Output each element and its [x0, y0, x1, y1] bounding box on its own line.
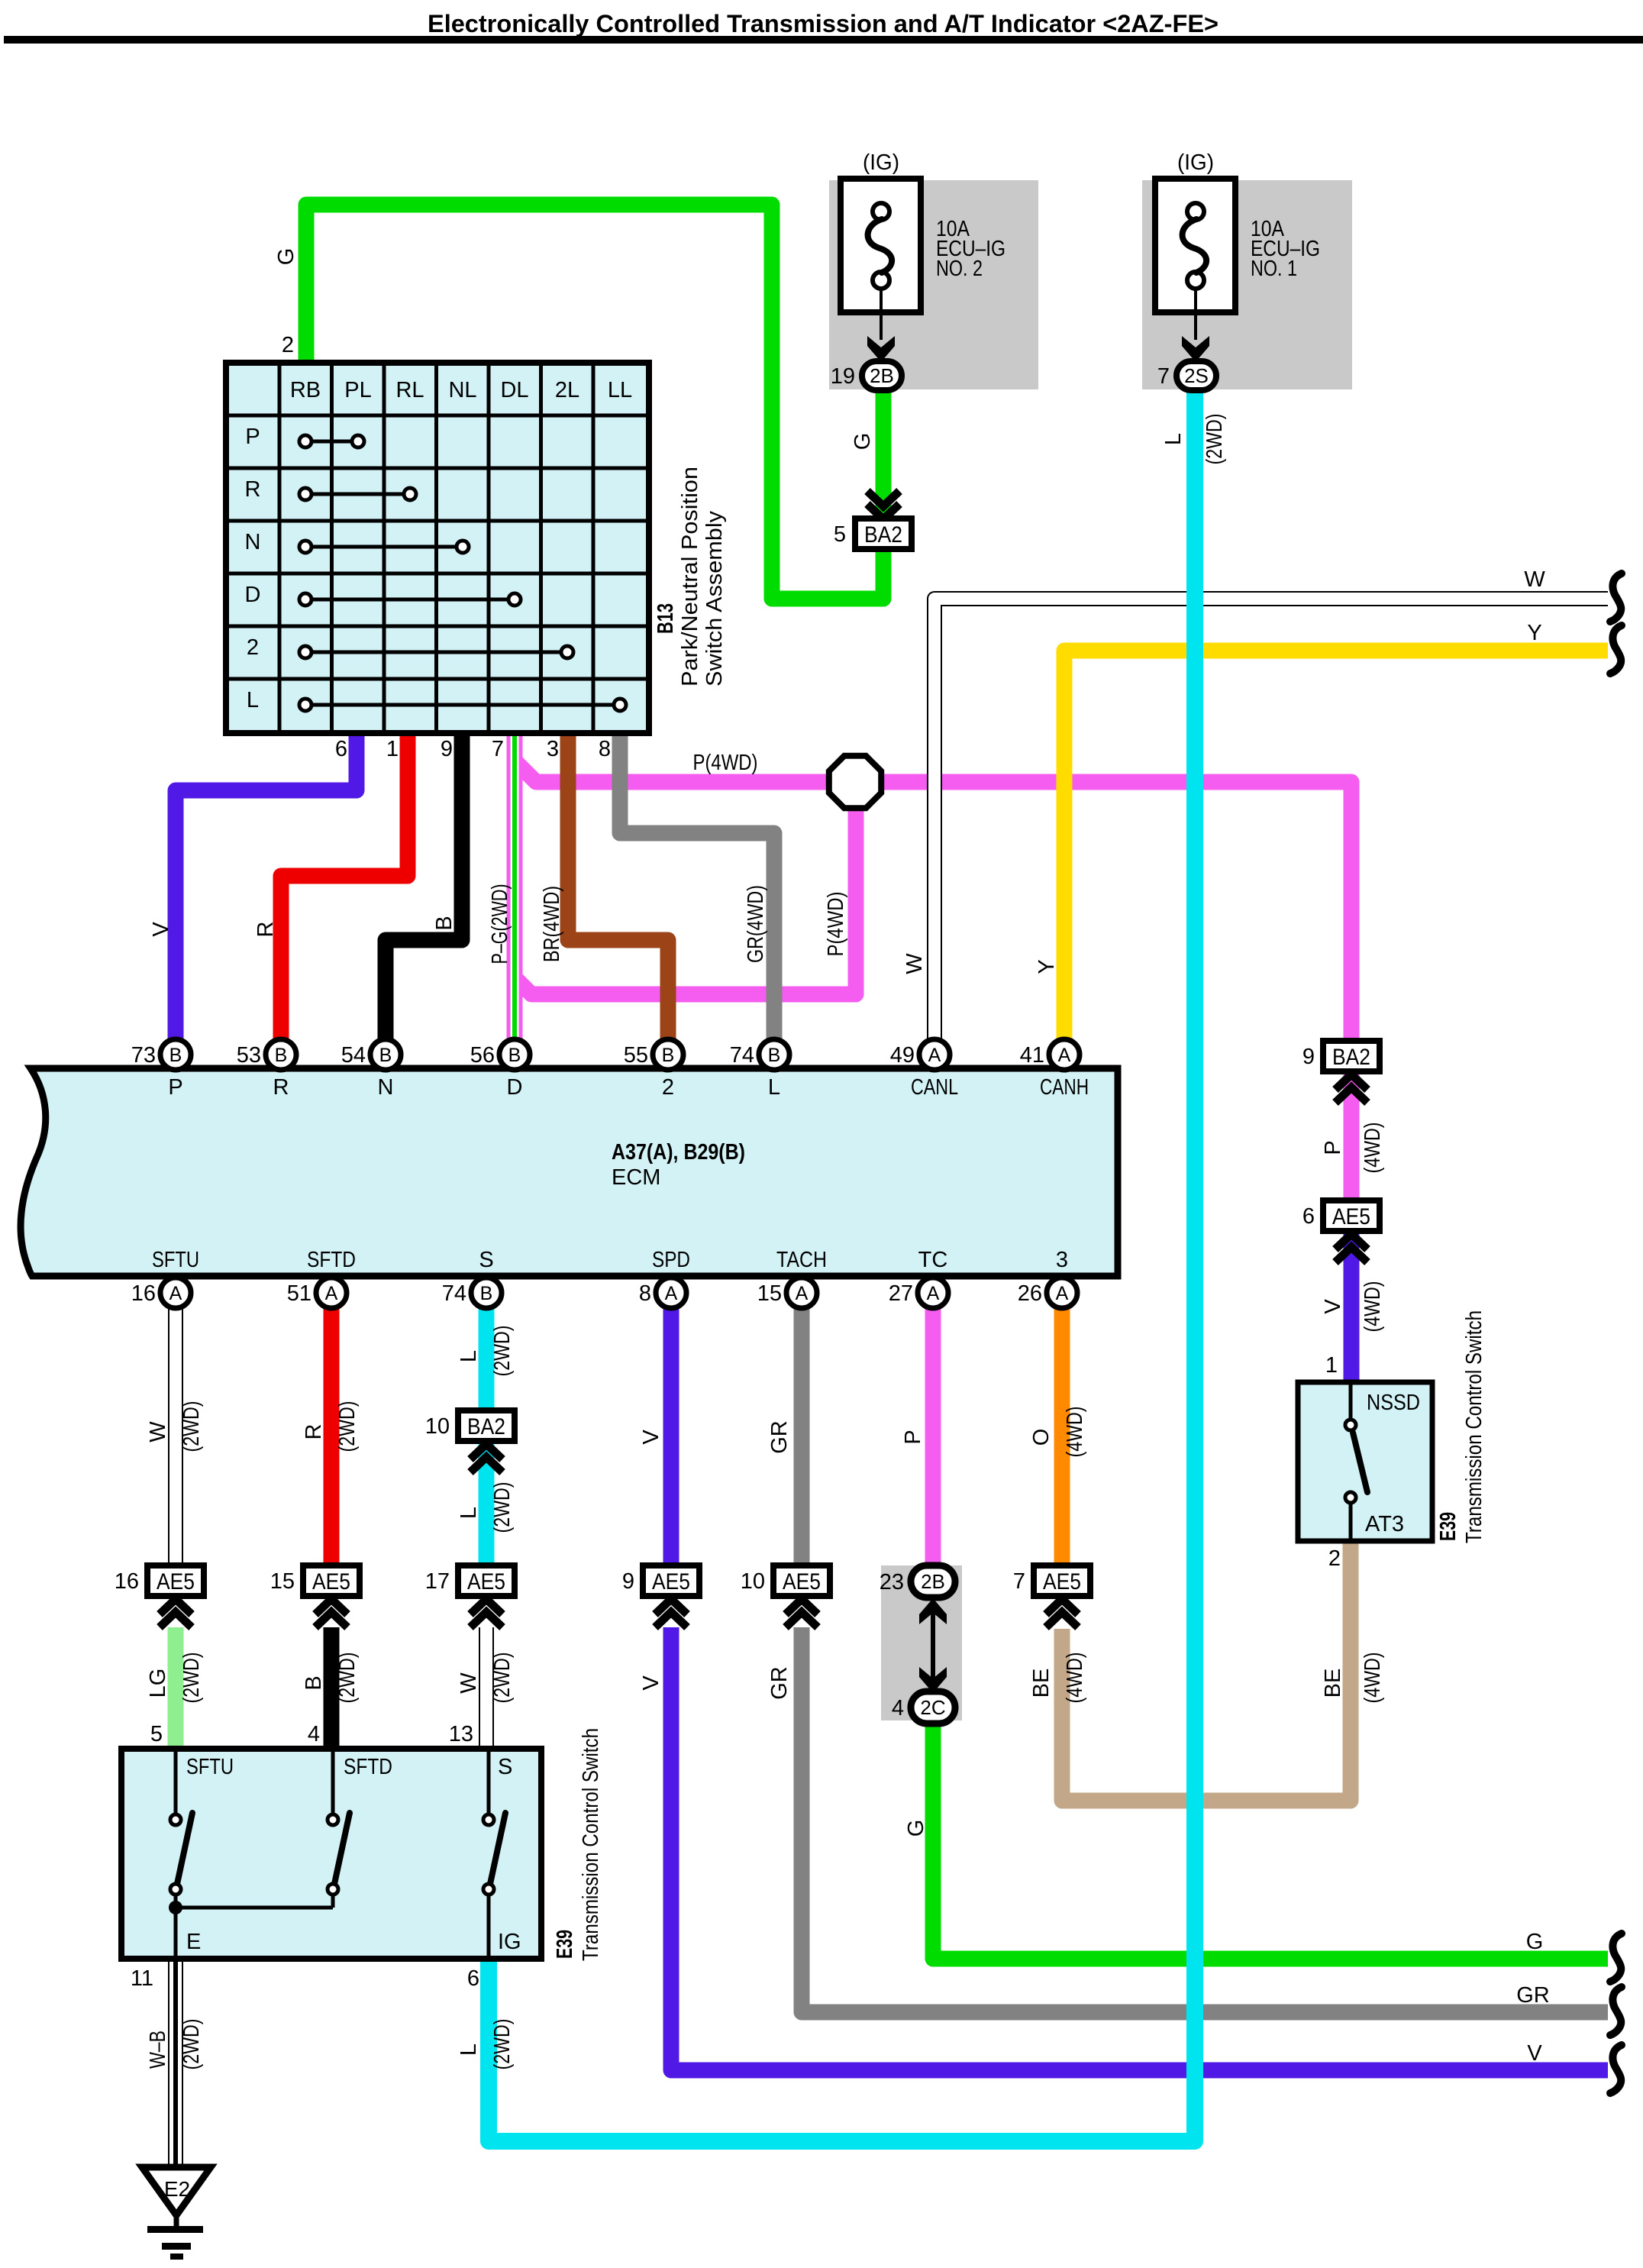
svg-text:53: 53 [237, 1043, 261, 1068]
svg-text:7: 7 [1157, 364, 1170, 389]
svg-text:26: 26 [1018, 1281, 1042, 1306]
ECM top pin 41(A) CANH [1020, 1039, 1089, 1100]
svg-text:(2WD): (2WD) [179, 1401, 204, 1452]
svg-text:1: 1 [386, 737, 399, 761]
svg-text:P: P [245, 425, 260, 449]
svg-text:PL: PL [344, 378, 371, 402]
svg-text:(2WD): (2WD) [490, 1653, 515, 1704]
wire break G at right edge [1610, 1934, 1622, 1982]
wire break V at right edge [1610, 2045, 1622, 2093]
svg-text:BA2: BA2 [467, 1414, 505, 1439]
fuse output arrow to 2S [1182, 288, 1209, 362]
svg-text:CANL: CANL [911, 1075, 958, 1100]
svg-text:W: W [902, 953, 927, 974]
connector 4 2C [892, 1691, 955, 1724]
svg-text:16: 16 [115, 1569, 139, 1594]
B13 designator labels [654, 467, 727, 687]
svg-text:4: 4 [308, 1722, 320, 1746]
svg-text:11: 11 [131, 1966, 153, 1991]
wire Y: ECM pin41 CANH to right edge [1064, 651, 1608, 1042]
svg-text:L: L [768, 1075, 780, 1100]
svg-text:A: A [796, 1283, 809, 1304]
svg-text:AE5: AE5 [1332, 1204, 1370, 1229]
connector 7 2S [1157, 361, 1216, 390]
wire W: ECM pin49 CANL to right edge [934, 599, 1608, 1042]
svg-text:NSSD: NSSD [1367, 1391, 1420, 1415]
svg-text:RB: RB [290, 378, 321, 402]
svg-text:GR(4WD): GR(4WD) [744, 885, 768, 963]
svg-text:V: V [639, 1675, 663, 1691]
svg-text:4: 4 [892, 1696, 904, 1720]
svg-text:P(4WD): P(4WD) [693, 751, 758, 775]
svg-text:A: A [1056, 1283, 1069, 1304]
connector 17 AE5 [425, 1565, 515, 1627]
svg-text:56: 56 [470, 1043, 495, 1068]
svg-text:2S: 2S [1184, 364, 1209, 387]
svg-text:27: 27 [889, 1281, 913, 1306]
right edge wire name labels [1516, 567, 1550, 2066]
wire LG(2WD): 16 AE5 to E39 pin5 [168, 1627, 184, 1752]
svg-text:(2WD): (2WD) [335, 1401, 360, 1452]
svg-text:BR(4WD): BR(4WD) [540, 886, 564, 962]
svg-text:GR: GR [767, 1420, 792, 1454]
connector 10 AE5 [741, 1565, 830, 1627]
svg-text:NO. 1: NO. 1 [1251, 257, 1297, 281]
wire break Y at right edge [1610, 625, 1622, 674]
svg-text:SFTD: SFTD [344, 1755, 392, 1779]
wire O(4WD): ECM pin26 3 to 7 AE5 [1054, 1306, 1070, 1569]
ECM bottom pin 27(A) TC [889, 1248, 948, 1308]
svg-text:74: 74 [730, 1043, 754, 1068]
svg-text:D: D [245, 583, 261, 607]
svg-text:AT3: AT3 [1365, 1512, 1404, 1536]
svg-text:TACH: TACH [776, 1248, 827, 1272]
wire BR(4WD): PNP pin3 to ECM pin55 2 [568, 729, 668, 1042]
svg-text:Y: Y [1527, 621, 1541, 645]
svg-text:19: 19 [831, 364, 855, 389]
ECM bottom pin 15(A) TACH [757, 1248, 827, 1308]
svg-text:2B: 2B [921, 1570, 945, 1593]
svg-text:G: G [274, 248, 299, 266]
svg-text:L: L [1161, 433, 1186, 445]
svg-text:(2WD): (2WD) [490, 1326, 515, 1377]
wire G: fuse 2B pin19 to PNP switch pin 2 [306, 205, 883, 599]
wire W-B(2WD): E39 pin11 to ground E2 [168, 1956, 183, 2170]
wire P: ECM pin27 TC to 23 2B [925, 1306, 941, 1570]
svg-text:7: 7 [492, 737, 504, 761]
svg-text:RL: RL [395, 378, 424, 402]
connector 5 BA2 (green wire) [834, 491, 912, 549]
transmission control switch E39 (NSSD/AT3) [1298, 1310, 1486, 1571]
svg-text:P: P [901, 1430, 925, 1444]
svg-text:(2WD): (2WD) [1202, 414, 1227, 465]
svg-text:L: L [457, 2043, 481, 2056]
svg-text:(4WD): (4WD) [1361, 1653, 1385, 1704]
wire P(4WD) lower branch to octagon junction [513, 806, 856, 994]
svg-text:6: 6 [1302, 1204, 1315, 1229]
wire break GR at right edge [1610, 1987, 1622, 2035]
svg-text:D: D [507, 1075, 523, 1100]
wire B: PNP pin9 to ECM pin54 N [386, 729, 462, 1042]
svg-text:ECM: ECM [612, 1165, 660, 1190]
contact N:RB-NL [299, 541, 469, 553]
svg-text:L: L [457, 1350, 481, 1362]
ECM top pin 73(B) P [131, 1039, 191, 1100]
wire B(2WD): 15 AE5 to E39 pin4 [324, 1627, 340, 1752]
svg-text:41: 41 [1020, 1043, 1044, 1068]
contact R:RB-RL [299, 488, 416, 500]
wire W(2WD): ECM pin16 SFTU to 16 AE5 [168, 1306, 183, 1569]
svg-text:A: A [928, 1045, 941, 1066]
svg-text:AE5: AE5 [1043, 1569, 1081, 1594]
svg-text:51: 51 [287, 1281, 311, 1306]
svg-text:Park/Neutral Position: Park/Neutral Position [678, 467, 702, 687]
svg-text:P: P [168, 1075, 182, 1100]
svg-text:SPD: SPD [652, 1248, 690, 1272]
svg-text:A: A [1058, 1045, 1071, 1066]
ECM bottom pin 8(A) SPD [639, 1248, 690, 1308]
svg-text:A: A [169, 1283, 182, 1304]
svg-text:AE5: AE5 [467, 1569, 505, 1594]
svg-text:B: B [768, 1045, 781, 1066]
svg-text:6: 6 [467, 1966, 479, 1991]
svg-text:55: 55 [624, 1043, 648, 1068]
svg-text:2: 2 [282, 333, 294, 357]
ECM bottom pin 16(A) SFTU [131, 1248, 199, 1308]
ECM top pin 56(B) D [470, 1039, 530, 1100]
svg-text:V: V [149, 922, 173, 937]
svg-text:G: G [851, 433, 875, 451]
svg-text:(2WD): (2WD) [179, 1653, 204, 1704]
wire L(2WD): fuse 2S pin7 via E39 pin6 IG (long cyan run) [489, 386, 1195, 2141]
wire W(2WD): 17 AE5 to E39 pin13 [479, 1627, 494, 1752]
wire L(2WD): ECM pin74 S to 10 BA2 [479, 1306, 495, 1414]
svg-text:P–G(2WD): P–G(2WD) [488, 884, 512, 964]
ECM top pin 74(B) L [730, 1039, 789, 1100]
svg-text:2B: 2B [870, 364, 894, 387]
svg-text:B: B [432, 916, 457, 930]
wire V: 9 AE5 to right edge [671, 1627, 1608, 2070]
svg-text:(4WD): (4WD) [1361, 1281, 1385, 1333]
svg-text:B: B [169, 1045, 182, 1066]
svg-text:N: N [245, 530, 261, 554]
svg-text:R: R [245, 477, 261, 502]
ECM top pin 54(B) N [341, 1039, 401, 1100]
fuse 10A ECU-IG NO. 1 [1155, 150, 1320, 312]
svg-text:A37(A), B29(B): A37(A), B29(B) [612, 1140, 745, 1165]
svg-text:W: W [146, 1421, 170, 1443]
ECM top pin 55(B) 2 [624, 1039, 683, 1100]
svg-text:B: B [662, 1045, 675, 1066]
svg-text:NL: NL [448, 378, 476, 402]
svg-text:10: 10 [425, 1414, 450, 1439]
ECM A37(A) B29(B) [21, 1068, 1118, 1276]
svg-text:54: 54 [341, 1043, 366, 1068]
ECM bottom pin 51(A) SFTD [287, 1248, 356, 1308]
PNP bottom pin labels 6 1 9 7 3 8 [335, 737, 611, 761]
connector 10 BA2 (cyan wire) [425, 1410, 515, 1472]
park/neutral position switch assembly B13 [226, 363, 649, 733]
svg-text:3: 3 [1056, 1248, 1068, 1272]
wire G: 4 2C to right edge [933, 1720, 1608, 1959]
wire V(4WD): 6 AE5 to NSSD pin1 [1344, 1232, 1360, 1386]
svg-text:W: W [1524, 567, 1545, 592]
svg-text:NO. 2: NO. 2 [936, 257, 983, 281]
svg-text:Electronically Controlled Tran: Electronically Controlled Transmission a… [428, 10, 1219, 37]
svg-text:13: 13 [449, 1722, 473, 1746]
svg-text:(2WD): (2WD) [490, 1482, 515, 1533]
svg-text:O: O [1029, 1429, 1054, 1446]
transmission control switch E39 (SFTU/SFTD/S) [121, 1728, 603, 1961]
svg-text:AE5: AE5 [652, 1569, 690, 1594]
contact D:RB-DL [299, 593, 521, 606]
connector 19 2B [831, 361, 902, 390]
svg-text:P(4WD): P(4WD) [824, 892, 848, 957]
svg-text:SFTU: SFTU [186, 1755, 234, 1779]
svg-text:E2: E2 [164, 2177, 190, 2201]
svg-text:73: 73 [131, 1043, 156, 1068]
svg-text:V: V [1321, 1299, 1345, 1314]
svg-text:6: 6 [335, 737, 347, 761]
wire P(4WD) upper: branch from pin7 through octagon to 9 BA2 and NSSD column [513, 759, 1351, 1046]
svg-text:(2WD): (2WD) [490, 2019, 515, 2070]
connector 16 AE5 [115, 1565, 204, 1627]
connector 23 2B [880, 1565, 955, 1598]
wire break W at right edge [1610, 573, 1622, 622]
svg-text:E39: E39 [553, 1930, 577, 1959]
svg-text:W–B: W–B [146, 2031, 170, 2069]
svg-text:IG: IG [498, 1930, 521, 1954]
svg-text:LL: LL [608, 378, 632, 402]
svg-text:V: V [1527, 2041, 1542, 2066]
svg-text:Transmission Control Switch: Transmission Control Switch [1462, 1310, 1486, 1543]
svg-text:8: 8 [599, 737, 611, 761]
svg-text:17: 17 [425, 1569, 450, 1594]
svg-text:2: 2 [247, 635, 259, 660]
svg-text:S: S [479, 1248, 493, 1272]
svg-text:A: A [325, 1283, 338, 1304]
header rule [4, 36, 1643, 44]
svg-text:BE: BE [1321, 1669, 1345, 1698]
svg-text:R: R [273, 1075, 289, 1100]
E39 pin labels 5 4 13 11 6 [131, 1722, 479, 1991]
svg-text:A: A [665, 1283, 678, 1304]
svg-text:15: 15 [270, 1569, 295, 1594]
svg-text:5: 5 [834, 522, 846, 547]
wire R(2WD): ECM pin51 SFTD to 15 AE5 [324, 1306, 340, 1569]
svg-text:(2WD): (2WD) [179, 2019, 204, 2070]
svg-text:74: 74 [442, 1281, 466, 1306]
connector 9 BA2 (pink wire) [1302, 1041, 1380, 1103]
svg-text:(4WD): (4WD) [1063, 1407, 1087, 1458]
svg-text:SFTD: SFTD [307, 1248, 356, 1272]
wire GR: ECM pin15 TACH to 10 AE5 [794, 1306, 810, 1569]
svg-text:(4WD): (4WD) [1361, 1123, 1385, 1174]
ECM bottom pin 74(B) S [442, 1248, 502, 1308]
fuse block shading (ECU-IG NO.1) [1142, 180, 1352, 389]
svg-text:LG: LG [146, 1669, 170, 1698]
connector 15 AE5 [270, 1565, 360, 1627]
svg-text:AE5: AE5 [157, 1569, 195, 1594]
svg-text:9: 9 [1302, 1045, 1315, 1069]
wire P-G(2WD): PNP pin7 to ECM pin56 D (pink w/ green stripe) [507, 729, 523, 1042]
svg-text:DL: DL [500, 378, 528, 402]
fuse block shading (ECU-IG NO.2) [829, 180, 1038, 389]
svg-text:SFTU: SFTU [152, 1248, 199, 1272]
svg-text:9: 9 [441, 737, 453, 761]
svg-text:E39: E39 [1436, 1512, 1461, 1541]
wire V: PNP pin6 to ECM pin73 P [176, 729, 357, 1042]
svg-text:GR: GR [767, 1666, 792, 1700]
svg-text:Switch Assembly: Switch Assembly [702, 510, 727, 687]
svg-text:G: G [1526, 1930, 1544, 1954]
svg-text:3: 3 [547, 737, 559, 761]
fuse output arrow to 2B [867, 288, 895, 362]
svg-text:(4WD): (4WD) [1063, 1653, 1087, 1704]
svg-text:2L: 2L [555, 378, 579, 402]
svg-text:B: B [275, 1045, 288, 1066]
svg-text:16: 16 [131, 1281, 156, 1306]
wire L(2WD): 10 BA2 to 17 AE5 [479, 1439, 495, 1569]
svg-text:BE: BE [1029, 1669, 1054, 1698]
svg-text:15: 15 [757, 1281, 782, 1306]
svg-text:L: L [457, 1507, 481, 1519]
svg-text:2: 2 [1328, 1546, 1341, 1571]
ECM top pin 49(A) CANL [890, 1039, 958, 1100]
svg-text:(2WD): (2WD) [335, 1653, 360, 1704]
svg-text:B13: B13 [654, 603, 678, 634]
svg-text:Transmission Control Switch: Transmission Control Switch [579, 1728, 603, 1961]
svg-text:BA2: BA2 [864, 522, 902, 548]
svg-text:(IG): (IG) [1177, 150, 1214, 175]
wire GR(4WD): PNP pin8 to ECM pin74 L [620, 729, 774, 1042]
svg-text:CANH: CANH [1040, 1075, 1089, 1100]
svg-text:L: L [247, 688, 259, 712]
svg-text:(IG): (IG) [863, 150, 899, 175]
svg-text:B: B [379, 1045, 392, 1066]
svg-text:49: 49 [890, 1043, 915, 1068]
svg-text:W: W [457, 1672, 481, 1694]
contact P:RB-PL [299, 435, 364, 447]
junction arrow 2B to 2C [919, 1598, 947, 1693]
svg-text:N: N [378, 1075, 394, 1100]
svg-text:P: P [1321, 1140, 1345, 1155]
octagon junction on P(4WD) [829, 756, 881, 808]
wire V: ECM pin8 SPD to 9 AE5 [663, 1306, 679, 1569]
svg-text:9: 9 [622, 1569, 634, 1594]
connector 7 AE5 [1013, 1565, 1090, 1627]
svg-text:R: R [253, 922, 278, 938]
wire R: PNP pin1 to ECM pin53 R [281, 729, 408, 1042]
svg-text:S: S [498, 1755, 512, 1779]
svg-text:Y: Y [1035, 959, 1059, 974]
svg-text:BA2: BA2 [1332, 1045, 1370, 1070]
ECM top pin 53(B) R [237, 1039, 296, 1100]
svg-text:B: B [480, 1283, 493, 1304]
title: Electronically Controlled Transmission and A/T Indicator <2AZ-FE> [428, 10, 1219, 37]
svg-text:23: 23 [880, 1570, 904, 1594]
svg-text:B: B [302, 1675, 326, 1690]
wire P(4WD): 9 BA2 to 6 AE5 [1344, 1068, 1360, 1205]
connector 9 AE5 [622, 1565, 699, 1627]
svg-text:8: 8 [639, 1281, 651, 1306]
svg-text:7: 7 [1013, 1569, 1025, 1594]
ground E2 [142, 2167, 211, 2260]
wire labels (rotated) [146, 248, 1385, 2070]
PNP pin 2 label [282, 333, 294, 357]
svg-text:A: A [927, 1283, 940, 1304]
svg-text:AE5: AE5 [312, 1569, 350, 1594]
ECM bottom pin 26(A) 3 [1018, 1248, 1077, 1308]
wire BE(4WD): 7 AE5 to NSSD pin2 [1062, 1537, 1351, 1801]
svg-text:GR: GR [1516, 1983, 1550, 2008]
svg-text:E: E [186, 1930, 201, 1954]
junction shading (2B-2C connector) [881, 1565, 962, 1720]
svg-text:B: B [508, 1045, 521, 1066]
svg-text:R: R [302, 1424, 326, 1440]
svg-text:5: 5 [150, 1722, 163, 1746]
fuse 10A ECU-IG NO. 2 [841, 150, 1005, 312]
svg-text:AE5: AE5 [783, 1569, 821, 1594]
connector 6 AE5 (pink to violet) [1302, 1200, 1380, 1262]
svg-text:1: 1 [1325, 1353, 1338, 1378]
svg-text:10: 10 [741, 1569, 765, 1594]
contact L:RB-LL [299, 699, 626, 711]
contact 2:RB-2L [299, 646, 573, 658]
svg-text:2: 2 [662, 1075, 674, 1100]
svg-text:TC: TC [918, 1248, 948, 1272]
svg-text:V: V [639, 1430, 663, 1445]
label P(4WD) above junction wire [693, 751, 758, 775]
svg-text:2C: 2C [920, 1696, 945, 1719]
svg-text:G: G [904, 1820, 928, 1837]
wire GR: 10 AE5 to right edge [802, 1627, 1608, 2012]
